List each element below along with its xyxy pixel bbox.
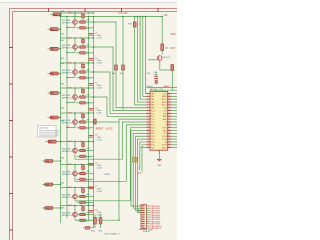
wire pin 23: [172, 95, 178, 97]
frame tick left: [9, 156, 13, 158]
svg-text:26: 26: [168, 104, 170, 106]
net flag IN5: [50, 92, 58, 95]
junction row9: [118, 220, 119, 221]
resistor R3a: [82, 64, 85, 68]
display gray wire: [39, 135, 59, 137]
junction feed: [134, 16, 135, 17]
svg-text:39: 39: [168, 141, 170, 143]
junction rail B2: [93, 37, 94, 38]
junction rail A5: [88, 112, 89, 113]
junction rail A9: [88, 205, 89, 206]
svg-text:8: 8: [147, 112, 148, 114]
wire R9b to rail: [85, 214, 93, 216]
resistor R6c: [80, 155, 85, 157]
power rail VCC: [61, 16, 163, 18]
junction rail B3: [93, 62, 94, 63]
wire flag 2 lead: [58, 28, 60, 30]
resistor emitter: [171, 65, 174, 71]
wire pin 41: [172, 147, 178, 149]
wire AREF: [147, 87, 178, 89]
pin 27 right: [168, 107, 172, 109]
wire R2a top lead: [82, 38, 84, 39]
resistor R1a: [82, 14, 85, 18]
svg-text:28: 28: [168, 109, 170, 111]
pin 12 left: [146, 124, 150, 126]
junction rail A3: [88, 62, 89, 63]
svg-text:AVCC: AVCC: [162, 98, 168, 101]
svg-text:GND: GND: [60, 158, 65, 160]
wire flag 1 left stub: [50, 13, 53, 15]
wire to R3c: [77, 77, 80, 79]
wire R4a top lead: [82, 88, 84, 89]
svg-text:PC3: PC3: [151, 119, 155, 121]
display gray wire: [39, 133, 59, 135]
wire pin 22: [172, 93, 178, 95]
wire flag 10 lead: [53, 207, 61, 209]
wire R8b to rail: [85, 196, 93, 198]
wire R2c to rail: [85, 52, 93, 54]
wire pin 35: [172, 130, 178, 132]
junction rail B7: [93, 164, 94, 165]
wire Q1 emitter: [74, 24, 76, 27]
wire pin 33: [172, 124, 178, 126]
wire R41 top: [100, 214, 102, 218]
wire flag 4 lead: [58, 73, 60, 75]
wire pin 32: [172, 121, 178, 123]
pin 7 left: [146, 110, 150, 112]
net flag IN10: [45, 207, 53, 210]
wire block 5 rail: [61, 112, 94, 114]
transistor Q6: [73, 148, 78, 153]
transistor Q2: [73, 45, 78, 50]
resistor right branch: [161, 44, 164, 51]
decoupling rail B: [93, 17, 95, 229]
wire emitter bus 5: [67, 127, 75, 129]
pin 11 left: [146, 121, 150, 123]
resistor R2a: [82, 39, 85, 43]
net flag IN7: [48, 140, 56, 143]
svg-text:OUT: OUT: [171, 48, 176, 50]
pin 13 left: [146, 127, 150, 129]
pin 24 right: [168, 98, 172, 100]
svg-text:PB5: PB5: [151, 108, 155, 110]
capacitor C4: [89, 107, 94, 110]
capacitor C3: [89, 82, 94, 85]
wire Q6 collector to R6b: [77, 150, 80, 152]
svg-text:NPN-SOT: NPN-SOT: [62, 215, 73, 217]
frame tick left: [9, 47, 13, 49]
junction rail B9: [93, 205, 94, 206]
wire R4c to rail: [85, 102, 93, 104]
wire R3a top lead: [82, 63, 84, 64]
junction row out: [93, 21, 94, 22]
svg-text:GND: GND: [60, 11, 65, 13]
svg-text:C-EU: C-EU: [97, 139, 103, 141]
wire R40 bottom: [94, 224, 96, 228]
junction rail A8: [88, 187, 89, 188]
svg-text:GND: GND: [157, 165, 162, 167]
svg-text:SDA: SDA: [137, 172, 142, 175]
connector pin 1: [142, 206, 145, 207]
frame border inner: [13, 12, 178, 240]
transistor Q3: [73, 70, 78, 75]
wire R3a bottom lead: [82, 68, 84, 72]
svg-text:24: 24: [168, 98, 170, 100]
connector pin 5: [142, 214, 145, 215]
pin 8 left: [146, 112, 150, 114]
wire to R4c: [77, 102, 80, 104]
wire Q1 collector to R1b: [77, 21, 80, 23]
wire pin 25: [172, 101, 178, 103]
svg-text:GND3: GND3: [147, 86, 154, 88]
wire to R5c: [77, 127, 80, 129]
svg-text:31: 31: [168, 118, 170, 120]
wire row to pin7: [94, 47, 147, 111]
left bus rail A: [60, 17, 62, 224]
resistor bottom R40: [94, 218, 97, 225]
junction feed: [137, 16, 138, 17]
junction flag 8: [60, 160, 61, 161]
svg-text:NPN-SOT: NPN-SOT: [62, 22, 73, 24]
junction rail A2: [88, 37, 89, 38]
svg-text:ADC7: ADC7: [162, 104, 167, 107]
svg-text:C-EU: C-EU: [97, 112, 103, 114]
connector pin 4: [142, 212, 145, 213]
wire R5a top lead: [82, 113, 84, 114]
transistor Q4: [73, 95, 78, 100]
junction emitter 1: [66, 27, 67, 28]
svg-text:GND: GND: [60, 108, 65, 110]
wire pin 26: [172, 104, 178, 106]
svg-text:C-EU: C-EU: [97, 62, 103, 64]
net flag IN3: [50, 47, 58, 50]
frame tick top: [84, 8, 86, 12]
capacitor C1: [89, 32, 94, 35]
wire emitter bus 1: [67, 27, 75, 29]
svg-text:ADC6: ADC6: [162, 101, 167, 104]
junction row out: [93, 96, 94, 97]
wire row to pin6: [94, 22, 147, 108]
wire block 7 rail: [61, 164, 94, 166]
svg-text:16: 16: [147, 135, 149, 137]
wire collector Q4: [74, 88, 76, 95]
junction collector rail 6: [74, 141, 75, 142]
wire pin 40: [172, 144, 178, 146]
junction emitter 4: [66, 102, 67, 103]
wire lower row to pin12: [75, 125, 146, 181]
wire block 2 rail: [61, 37, 94, 39]
wire R6a bottom lead: [82, 146, 84, 150]
junction flag 7: [60, 141, 61, 142]
wire flag 9 left stub: [42, 184, 45, 186]
frame border outer: [10, 9, 178, 240]
junction feed: [145, 16, 146, 17]
svg-text:INT0: INT0: [163, 128, 167, 130]
wire block 1 rail: [61, 12, 94, 14]
junction collector rail 4: [74, 87, 75, 88]
wire R6b to rail: [85, 150, 93, 152]
wire feed pin5: [135, 17, 147, 105]
svg-text:OC1A: OC1A: [162, 135, 168, 138]
svg-text:17: 17: [147, 138, 149, 140]
wire Q10 emitter route: [160, 60, 173, 90]
wire flag 8 left stub: [42, 160, 45, 162]
pin 41 right: [168, 147, 172, 149]
junction row out: [93, 71, 94, 72]
pin 5 left: [146, 104, 150, 106]
wire lower row to pin13: [75, 128, 146, 201]
svg-text:SV1: SV1: [139, 207, 141, 212]
wire long bus row9: [118, 122, 120, 220]
resistor R1c: [80, 27, 85, 29]
junction collector rail 2: [74, 37, 75, 38]
wire pin15 to connector: [133, 133, 146, 208]
junction row5: [93, 121, 94, 122]
svg-text:C-EU: C-EU: [97, 167, 103, 169]
svg-text:27: 27: [168, 107, 170, 109]
junction flag 10: [60, 207, 61, 208]
wire pull-up branch: [122, 17, 124, 111]
wire block 6 rail: [61, 141, 94, 143]
junction rail B8: [93, 187, 94, 188]
wire pin 31: [172, 118, 178, 120]
junction rail A1: [88, 12, 89, 13]
net flag IN6: [50, 116, 58, 119]
display gray wire: [39, 129, 59, 131]
wire collector Q2: [74, 38, 76, 45]
resistor R3b: [80, 71, 85, 73]
svg-text:NPN-SOT: NPN-SOT: [62, 72, 73, 74]
junction rail A7: [88, 164, 89, 165]
svg-text:37: 37: [168, 135, 170, 137]
resistor R5a: [82, 114, 85, 118]
junction rail A6: [88, 141, 89, 142]
frame tick top: [121, 8, 123, 12]
svg-text:NPN-SOT: NPN-SOT: [62, 97, 73, 99]
wire Q9 collector to R9b: [77, 214, 80, 216]
wire flag 10 left stub: [42, 207, 45, 209]
left bus rail B: [66, 17, 68, 219]
wire pin 37: [172, 135, 178, 137]
connector pin 11: [142, 228, 145, 229]
resistor R5b: [80, 121, 85, 123]
wire R1a bottom lead: [82, 18, 84, 22]
wire flag 8 lead: [53, 160, 61, 162]
resistor R9b: [80, 213, 85, 215]
junction collector rail 5: [74, 112, 75, 113]
svg-text:11: 11: [147, 121, 149, 123]
svg-text:GND: GND: [60, 40, 65, 42]
wire R41 bottom: [100, 224, 102, 228]
wire R5c to rail: [85, 127, 93, 129]
svg-text:1: 1: [147, 92, 148, 94]
wire to R1c: [77, 27, 80, 29]
junction flag 4: [60, 73, 61, 74]
wire Q5 emitter: [74, 124, 76, 127]
svg-text:PB3: PB3: [151, 102, 155, 104]
wire Q3 emitter: [74, 74, 76, 77]
svg-text:40: 40: [168, 144, 170, 146]
svg-text:PC1: PC1: [151, 113, 155, 115]
svg-text:14: 14: [147, 129, 149, 131]
wire R4a bottom lead: [82, 93, 84, 97]
connector pin 2: [142, 208, 145, 209]
wire emitter bus 4: [67, 102, 75, 104]
svg-text:33: 33: [168, 124, 170, 126]
junction collector rail 3: [74, 62, 75, 63]
svg-text:PB4: PB4: [151, 105, 155, 107]
transistor Q9: [73, 212, 78, 217]
junction rail B6: [93, 141, 94, 142]
junction flag 3: [60, 48, 61, 49]
decoupling rail A: [88, 17, 90, 221]
pin 4 left: [146, 101, 150, 103]
junction emitter 3: [66, 77, 67, 78]
ground: [157, 159, 162, 160]
svg-text:PD3: PD3: [151, 136, 155, 138]
junction rail A4: [88, 87, 89, 88]
svg-text:PC5: PC5: [151, 125, 155, 127]
junction power rail: [82, 16, 83, 17]
display module box: [38, 126, 57, 138]
pin 19 left: [146, 144, 150, 146]
junction rail B5: [93, 112, 94, 113]
wire collector Q1: [74, 13, 76, 20]
wire Q4 collector to R4b: [77, 96, 80, 98]
resistor R1b: [80, 21, 85, 23]
pin 29 right: [168, 112, 172, 114]
pin 41 bottom: [158, 150, 160, 154]
resistor R4c: [80, 102, 85, 104]
svg-text:GND: GND: [171, 34, 176, 36]
wire block 4 rail: [61, 87, 94, 89]
wire row9 out: [75, 217, 119, 220]
small part bottom left: [86, 227, 90, 230]
svg-text:AREF: AREF: [162, 95, 168, 98]
junction power rail: [74, 16, 75, 17]
svg-text:GND7: GND7: [104, 174, 111, 176]
wire R5a bottom lead: [82, 118, 84, 122]
junction power rail: [60, 16, 61, 17]
wire pin17 to connector: [138, 139, 147, 213]
svg-text:C-EU: C-EU: [97, 87, 103, 89]
wire R7b to rail: [85, 173, 93, 175]
wire pin16 to connector: [135, 136, 146, 210]
transistor Q10: [158, 56, 163, 61]
svg-text:34: 34: [168, 127, 170, 129]
svg-text:PC2: PC2: [151, 116, 155, 118]
pin 25 right: [168, 101, 172, 103]
svg-text:PD6: PD6: [151, 145, 155, 147]
svg-text:GND: GND: [60, 208, 65, 210]
wire R3b to rail: [85, 71, 93, 73]
frame tick left: [9, 83, 13, 85]
svg-text:20: 20: [147, 146, 149, 148]
junction power rail: [93, 16, 94, 17]
svg-text:15: 15: [147, 132, 149, 134]
frame tick left: [9, 229, 13, 231]
svg-text:GND: GND: [60, 120, 65, 122]
svg-text:35: 35: [168, 129, 170, 131]
polarized cap mark: [155, 81, 157, 84]
pin 33 right: [168, 124, 172, 126]
wire to R8c: [77, 201, 80, 203]
svg-text:41: 41: [168, 146, 170, 148]
junction flag 5: [60, 92, 61, 93]
wire pin 36: [172, 132, 178, 134]
svg-text:38: 38: [168, 138, 170, 140]
resistor R7c: [80, 178, 85, 180]
wire Q4 emitter: [74, 99, 76, 102]
frame tick left: [9, 120, 13, 122]
junction feed: [142, 16, 143, 17]
wire R6c to rail: [85, 155, 93, 157]
capacitor C2: [89, 57, 94, 60]
svg-text:MOSI: MOSI: [162, 145, 167, 147]
svg-text:NPN-SOT: NPN-SOT: [62, 122, 73, 124]
wire IC gnd: [158, 154, 160, 159]
resistor R4b: [80, 96, 85, 98]
wire R8c to rail: [85, 201, 93, 203]
transistor Q7: [73, 171, 78, 176]
svg-text:AIN0: AIN0: [163, 115, 167, 118]
svg-text:4: 4: [147, 101, 148, 103]
svg-text:VCC+5V: VCC+5V: [119, 13, 128, 15]
wire R40 top: [94, 214, 96, 218]
wire Q2 emitter: [74, 49, 76, 52]
svg-text:25: 25: [168, 101, 170, 103]
wire flag 5 lead: [58, 92, 60, 94]
svg-text:9: 9: [147, 115, 148, 117]
junction emitter 5: [66, 127, 67, 128]
svg-text:OC1B: OC1B: [162, 139, 168, 141]
frame tick top: [157, 8, 159, 12]
wire pin 24: [172, 98, 178, 100]
svg-text:29: 29: [168, 112, 170, 114]
svg-text:GND: GND: [148, 230, 153, 232]
svg-text:PC0: PC0: [151, 110, 155, 112]
wire row to pin9: [94, 97, 147, 116]
pin 22 right: [168, 93, 172, 95]
capacitor C7: [89, 186, 94, 189]
wire collector Q8: [74, 188, 76, 195]
wire flag 9 lead: [53, 184, 61, 186]
wire Q3 collector to R3b: [77, 71, 80, 73]
junction flag 6: [60, 117, 61, 118]
pin 35 right: [168, 130, 172, 132]
wire flag 2 left stub: [48, 28, 51, 30]
pin 1 left: [146, 93, 150, 95]
svg-text:AREF: AREF: [164, 85, 170, 88]
svg-text:PC4: PC4: [151, 122, 155, 124]
pin 17 left: [146, 138, 150, 140]
wire collector Q7: [74, 165, 76, 172]
pin 30 right: [168, 115, 172, 117]
resistor R3c: [80, 77, 85, 79]
svg-text:PB1: PB1: [151, 96, 155, 98]
wire pin 38: [172, 138, 178, 140]
svg-text:10: 10: [147, 118, 149, 120]
svg-text:PD5: PD5: [151, 142, 155, 144]
svg-text:AGND: AGND: [106, 127, 113, 130]
pin 3 left: [146, 98, 150, 100]
wire emitter bus 2: [67, 52, 75, 54]
wire R2b to rail: [85, 46, 93, 48]
resistor R4a: [82, 89, 85, 93]
resistor R7b: [80, 172, 85, 174]
pin 18 left: [146, 141, 150, 143]
pin 2 left: [146, 95, 150, 97]
